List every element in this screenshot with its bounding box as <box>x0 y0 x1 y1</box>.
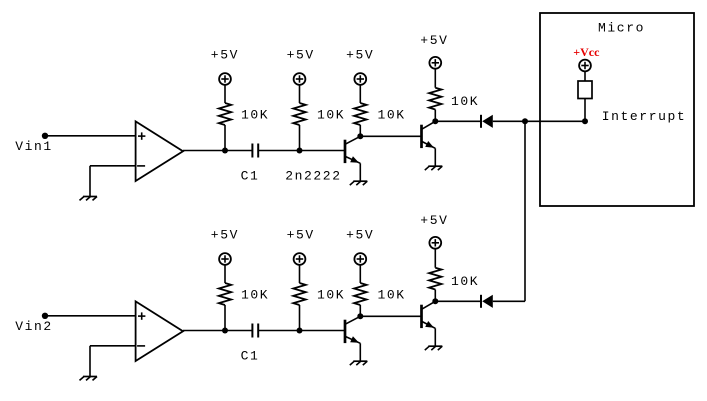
svg-text:10K: 10K <box>317 288 345 303</box>
svg-text:+5V: +5V <box>211 48 239 63</box>
svg-text:Vin2: Vin2 <box>15 319 53 334</box>
svg-text:+5V: +5V <box>287 48 315 63</box>
svg-text:+5V: +5V <box>211 228 239 243</box>
svg-text:10K: 10K <box>241 108 269 123</box>
svg-text:10K: 10K <box>451 274 479 289</box>
svg-text:10K: 10K <box>378 108 406 123</box>
svg-text:+5V: +5V <box>420 33 448 48</box>
svg-text:+5V: +5V <box>420 213 448 228</box>
svg-text:C1: C1 <box>241 168 260 183</box>
svg-text:C1: C1 <box>241 348 260 363</box>
svg-text:Micro: Micro <box>598 21 645 36</box>
svg-text:+5V: +5V <box>346 48 374 63</box>
svg-text:10K: 10K <box>241 288 269 303</box>
svg-text:+5V: +5V <box>287 228 315 243</box>
svg-text:+5V: +5V <box>346 228 374 243</box>
svg-text:Vin1: Vin1 <box>15 139 53 154</box>
svg-text:10K: 10K <box>451 94 479 109</box>
svg-text:+Vcc: +Vcc <box>573 45 600 59</box>
svg-text:10K: 10K <box>317 108 345 123</box>
svg-text:2n2222: 2n2222 <box>285 168 341 183</box>
svg-text:Interrupt: Interrupt <box>602 109 687 124</box>
svg-text:10K: 10K <box>378 288 406 303</box>
